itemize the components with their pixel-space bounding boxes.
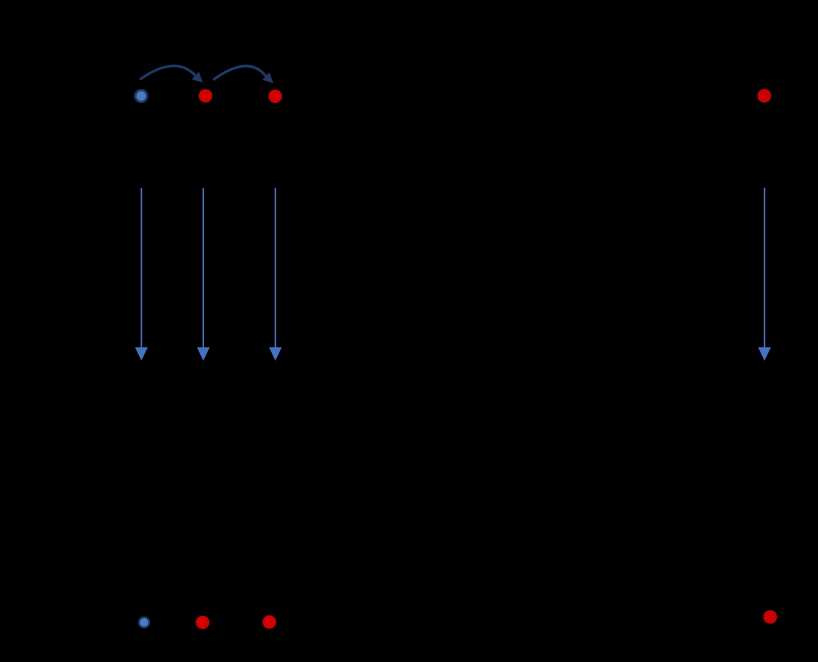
bottom blue dot: [139, 617, 149, 627]
vertical arrow 1: [135, 188, 148, 361]
top blue dot: [135, 90, 147, 102]
curved hop arrow 2 (red dot 1 to red dot 2): [213, 66, 273, 83]
top red dot 2: [269, 90, 282, 103]
top red dot 1: [199, 89, 212, 102]
vertical arrow 4 (right): [758, 188, 771, 361]
vertical arrow 3: [269, 188, 282, 361]
vertical arrow 2: [197, 188, 210, 361]
curved hop arrow 1 (blue dot to red dot 1): [140, 66, 203, 83]
bottom right red dot: [763, 610, 777, 624]
bottom red dot 2: [263, 615, 276, 628]
bottom red dot 1: [196, 616, 209, 629]
top right red dot: [758, 89, 772, 103]
